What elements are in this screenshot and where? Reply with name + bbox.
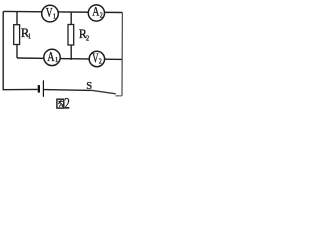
svg-text:2: 2 — [86, 35, 90, 43]
svg-text:1: 1 — [55, 57, 58, 64]
svg-text:A: A — [92, 5, 100, 19]
svg-text:1: 1 — [28, 33, 31, 40]
svg-text:2: 2 — [64, 94, 69, 111]
svg-text:1: 1 — [53, 13, 56, 20]
svg-text:S: S — [86, 81, 92, 92]
svg-text:V: V — [46, 5, 53, 20]
svg-text:2: 2 — [100, 12, 103, 20]
svg-text:A: A — [47, 48, 55, 64]
svg-text:2: 2 — [99, 58, 102, 66]
